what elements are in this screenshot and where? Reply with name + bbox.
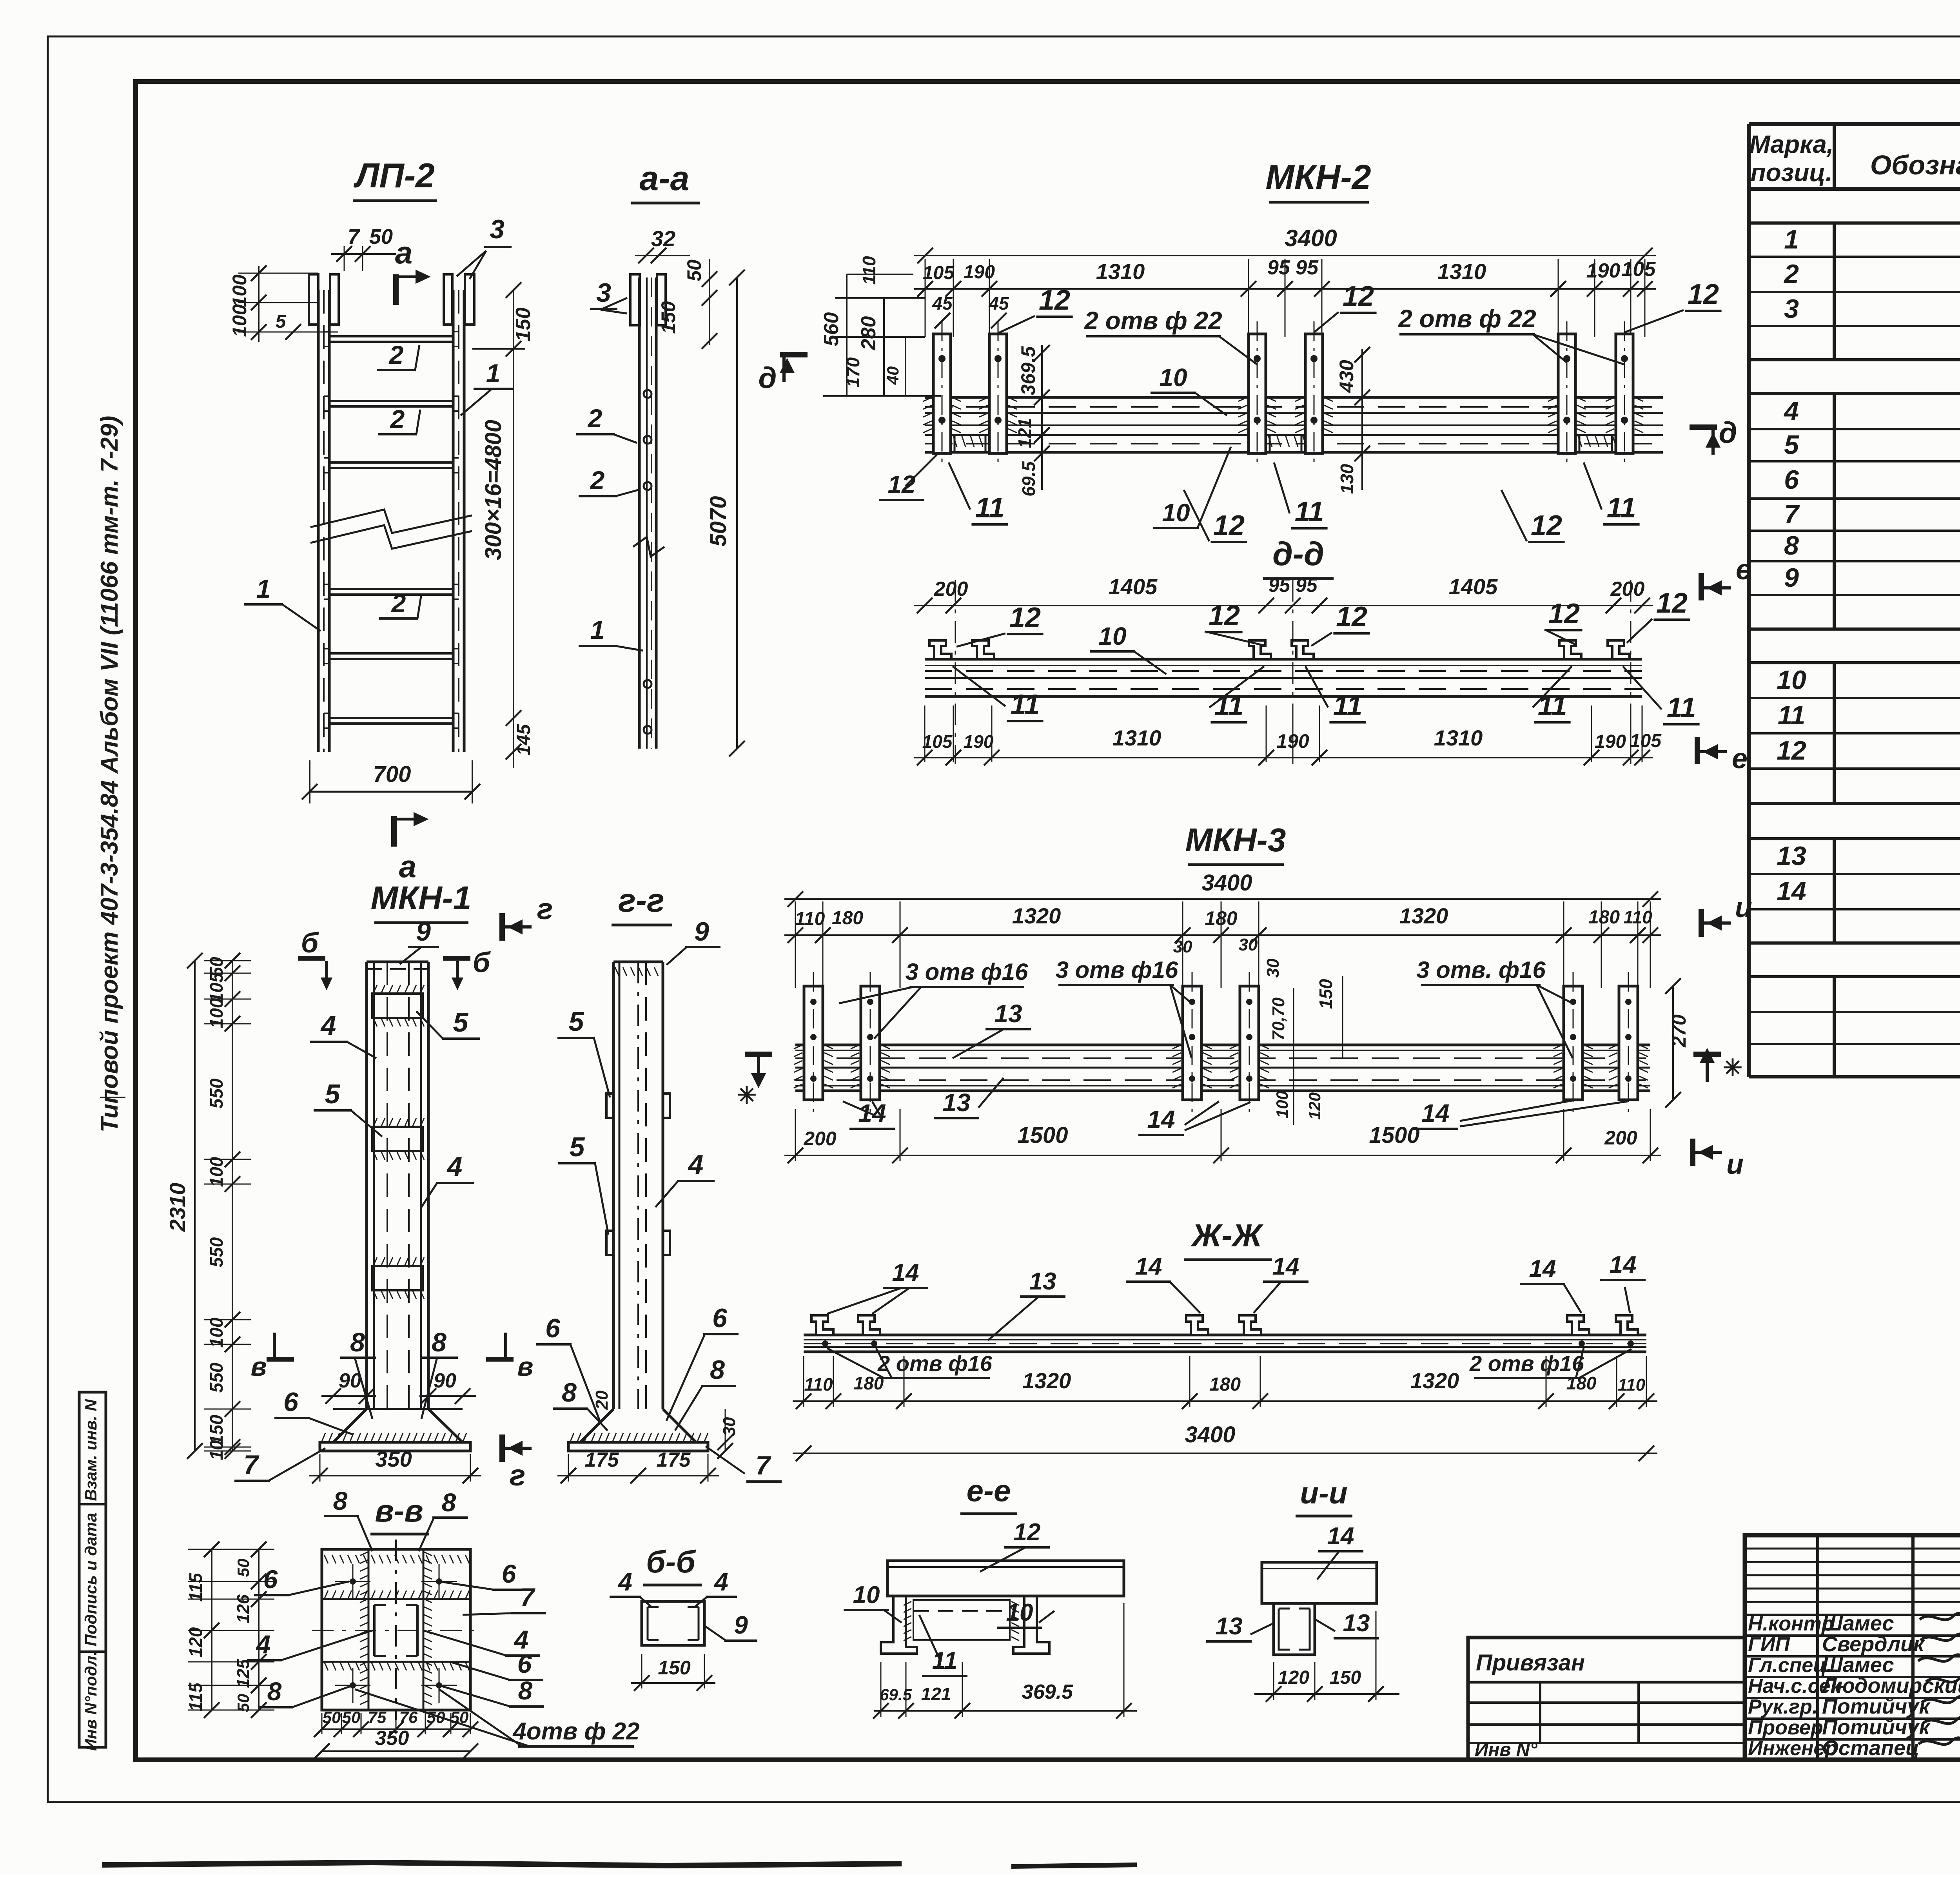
svg-text:75: 75 bbox=[368, 1708, 387, 1726]
svg-text:5: 5 bbox=[569, 1006, 584, 1037]
svg-text:11: 11 bbox=[1538, 690, 1567, 722]
svg-text:в: в bbox=[517, 1352, 533, 1382]
svg-text:13: 13 bbox=[1029, 1268, 1056, 1295]
svg-text:190: 190 bbox=[1586, 259, 1621, 282]
svg-text:1310: 1310 bbox=[1434, 725, 1483, 750]
svg-text:50: 50 bbox=[683, 259, 705, 281]
svg-text:50: 50 bbox=[450, 1708, 469, 1726]
svg-text:10: 10 bbox=[1098, 622, 1126, 650]
svg-text:6: 6 bbox=[545, 1313, 561, 1343]
svg-text:4: 4 bbox=[1783, 396, 1799, 426]
svg-text:5070: 5070 bbox=[706, 496, 731, 546]
svg-text:1500: 1500 bbox=[1017, 1123, 1068, 1148]
svg-text:190: 190 bbox=[1595, 731, 1626, 752]
svg-text:7: 7 bbox=[1784, 499, 1800, 529]
svg-text:Шамес: Шамес bbox=[1822, 1612, 1894, 1635]
svg-text:12: 12 bbox=[1213, 510, 1245, 541]
svg-text:МКН-2: МКН-2 bbox=[1265, 158, 1371, 196]
svg-text:Потийчук: Потийчук bbox=[1822, 1716, 1931, 1739]
svg-text:5: 5 bbox=[1784, 430, 1799, 460]
svg-text:50: 50 bbox=[427, 1708, 445, 1726]
svg-text:90: 90 bbox=[434, 1369, 456, 1392]
svg-text:11: 11 bbox=[1011, 689, 1040, 720]
svg-text:12: 12 bbox=[1688, 279, 1719, 310]
svg-text:20: 20 bbox=[592, 1390, 612, 1410]
svg-text:в-в: в-в bbox=[375, 1493, 423, 1528]
svg-text:115: 115 bbox=[185, 1682, 206, 1712]
svg-text:10: 10 bbox=[1162, 499, 1190, 527]
svg-text:8: 8 bbox=[432, 1328, 446, 1357]
svg-text:2: 2 bbox=[587, 404, 603, 433]
svg-text:е: е bbox=[1736, 554, 1751, 586]
svg-text:105: 105 bbox=[923, 263, 955, 283]
svg-text:8: 8 bbox=[333, 1486, 348, 1515]
svg-text:12: 12 bbox=[1039, 285, 1070, 316]
svg-text:Инв N°: Инв N° bbox=[1475, 1739, 1538, 1760]
svg-text:3 отв ф16: 3 отв ф16 bbox=[1056, 957, 1178, 983]
svg-text:6: 6 bbox=[263, 1565, 278, 1594]
svg-text:и-и: и-и bbox=[1300, 1476, 1347, 1510]
svg-text:1320: 1320 bbox=[1012, 903, 1061, 928]
svg-text:1320: 1320 bbox=[1022, 1368, 1071, 1393]
svg-text:б: б bbox=[473, 947, 491, 978]
svg-text:11: 11 bbox=[1778, 700, 1806, 730]
svg-text:7: 7 bbox=[755, 1451, 771, 1480]
svg-text:2 отв ф 22: 2 отв ф 22 bbox=[1398, 305, 1536, 333]
svg-text:14: 14 bbox=[1777, 876, 1806, 906]
svg-text:200: 200 bbox=[1604, 1127, 1637, 1149]
svg-text:8: 8 bbox=[350, 1328, 365, 1357]
svg-text:2 отв ф16: 2 отв ф16 bbox=[877, 1351, 993, 1376]
svg-text:11: 11 bbox=[1333, 690, 1363, 722]
svg-text:4: 4 bbox=[446, 1151, 463, 1182]
svg-text:12: 12 bbox=[887, 470, 915, 499]
svg-text:190: 190 bbox=[964, 262, 995, 283]
svg-text:180: 180 bbox=[1566, 1373, 1597, 1393]
svg-text:д-д: д-д bbox=[1272, 535, 1324, 572]
svg-text:11: 11 bbox=[1667, 692, 1696, 724]
svg-text:120: 120 bbox=[185, 1627, 206, 1657]
svg-text:Гл.спец.: Гл.спец. bbox=[1748, 1654, 1832, 1677]
svg-text:г-г: г-г bbox=[618, 882, 664, 919]
svg-text:6: 6 bbox=[517, 1649, 532, 1678]
svg-text:3: 3 bbox=[1784, 294, 1799, 324]
svg-text:8: 8 bbox=[710, 1355, 725, 1385]
svg-text:560: 560 bbox=[820, 312, 843, 346]
svg-text:14: 14 bbox=[1610, 1251, 1637, 1279]
svg-text:145: 145 bbox=[514, 724, 534, 756]
svg-text:180: 180 bbox=[832, 908, 863, 929]
svg-text:180: 180 bbox=[1588, 907, 1620, 928]
svg-text:a-a: a-a bbox=[639, 159, 689, 198]
svg-text:1500: 1500 bbox=[1369, 1123, 1419, 1148]
svg-text:б-б: б-б bbox=[646, 1544, 696, 1579]
svg-text:105: 105 bbox=[1630, 731, 1662, 751]
svg-text:1405: 1405 bbox=[1449, 574, 1498, 599]
svg-text:9: 9 bbox=[694, 917, 709, 947]
svg-text:150: 150 bbox=[657, 301, 679, 334]
svg-text:3 отв ф16: 3 отв ф16 bbox=[906, 959, 1028, 985]
svg-text:2 отв ф16: 2 отв ф16 bbox=[1469, 1351, 1584, 1376]
svg-text:130: 130 bbox=[1337, 464, 1357, 494]
svg-text:150: 150 bbox=[512, 308, 535, 342]
svg-text:12: 12 bbox=[1777, 736, 1806, 765]
svg-text:100: 100 bbox=[206, 1317, 227, 1347]
svg-text:30: 30 bbox=[1239, 935, 1258, 954]
svg-text:550: 550 bbox=[206, 1078, 227, 1108]
svg-text:110: 110 bbox=[804, 1374, 833, 1395]
svg-text:3: 3 bbox=[490, 214, 505, 244]
svg-text:Остапец: Остапец bbox=[1822, 1736, 1919, 1760]
svg-text:5: 5 bbox=[325, 1079, 341, 1109]
svg-text:1320: 1320 bbox=[1399, 903, 1448, 928]
svg-text:г: г bbox=[537, 892, 553, 926]
svg-text:190: 190 bbox=[964, 731, 994, 752]
svg-text:1405: 1405 bbox=[1109, 574, 1158, 599]
svg-text:3 отв. ф16: 3 отв. ф16 bbox=[1416, 957, 1546, 983]
svg-text:позиц.: позиц. bbox=[1750, 158, 1832, 187]
svg-text:5: 5 bbox=[570, 1132, 585, 1162]
svg-text:12: 12 bbox=[1009, 602, 1041, 633]
svg-text:30: 30 bbox=[1173, 937, 1192, 956]
svg-text:Свердлик: Свердлик bbox=[1822, 1632, 1925, 1656]
svg-text:2: 2 bbox=[391, 589, 406, 618]
svg-text:12: 12 bbox=[1531, 510, 1562, 541]
svg-text:2: 2 bbox=[590, 466, 605, 495]
svg-text:11: 11 bbox=[975, 492, 1005, 524]
svg-text:13: 13 bbox=[1777, 841, 1806, 871]
svg-text:180: 180 bbox=[854, 1373, 884, 1393]
svg-text:200: 200 bbox=[934, 578, 968, 600]
svg-text:МКН-1: МКН-1 bbox=[371, 880, 472, 916]
svg-text:8: 8 bbox=[1784, 531, 1799, 560]
svg-text:50: 50 bbox=[234, 1559, 252, 1577]
svg-text:12: 12 bbox=[1548, 598, 1580, 629]
svg-text:6: 6 bbox=[1784, 465, 1799, 495]
svg-text:a: a bbox=[395, 235, 413, 270]
svg-text:4: 4 bbox=[320, 1010, 336, 1041]
svg-text:9: 9 bbox=[416, 917, 431, 947]
svg-text:4: 4 bbox=[617, 1568, 632, 1596]
svg-text:3400: 3400 bbox=[1185, 1422, 1235, 1447]
svg-text:14: 14 bbox=[1529, 1255, 1556, 1282]
svg-text:10: 10 bbox=[1159, 363, 1187, 392]
svg-text:50: 50 bbox=[323, 1708, 341, 1726]
svg-text:2: 2 bbox=[390, 404, 405, 433]
svg-text:76: 76 bbox=[399, 1708, 418, 1726]
svg-text:Взам. инв. N: Взам. инв. N bbox=[82, 1399, 100, 1501]
svg-text:9: 9 bbox=[1784, 563, 1799, 593]
svg-text:8: 8 bbox=[518, 1676, 533, 1705]
svg-text:50: 50 bbox=[369, 225, 393, 248]
svg-text:4: 4 bbox=[256, 1630, 271, 1659]
svg-text:✳: ✳ bbox=[1723, 1055, 1742, 1081]
svg-text:200: 200 bbox=[1610, 578, 1645, 600]
svg-text:270: 270 bbox=[1668, 1014, 1690, 1048]
svg-text:14: 14 bbox=[1421, 1099, 1449, 1127]
svg-text:550: 550 bbox=[206, 1362, 227, 1393]
svg-text:1: 1 bbox=[486, 359, 501, 388]
svg-text:30: 30 bbox=[1263, 958, 1283, 977]
svg-text:40: 40 bbox=[884, 366, 902, 385]
svg-text:2: 2 bbox=[388, 340, 404, 369]
svg-text:Потийчук: Потийчук bbox=[1822, 1695, 1931, 1718]
svg-text:ГИП: ГИП bbox=[1748, 1633, 1790, 1656]
svg-text:Провер: Провер bbox=[1748, 1716, 1823, 1739]
svg-text:ЛП-2: ЛП-2 bbox=[353, 156, 435, 195]
svg-text:110: 110 bbox=[795, 909, 825, 929]
svg-text:и: и bbox=[1726, 1149, 1744, 1180]
svg-text:Ж-Ж: Ж-Ж bbox=[1190, 1218, 1263, 1253]
svg-text:175: 175 bbox=[585, 1449, 619, 1471]
svg-text:110: 110 bbox=[859, 256, 879, 285]
svg-text:120: 120 bbox=[1305, 1092, 1324, 1120]
svg-text:д: д bbox=[1719, 416, 1737, 450]
svg-text:1: 1 bbox=[590, 615, 605, 644]
svg-text:8: 8 bbox=[267, 1677, 282, 1706]
svg-text:350: 350 bbox=[375, 1447, 412, 1471]
svg-text:е-е: е-е bbox=[967, 1473, 1011, 1508]
svg-text:550: 550 bbox=[206, 1237, 227, 1267]
svg-text:105: 105 bbox=[922, 731, 953, 752]
svg-text:г: г bbox=[510, 1459, 526, 1492]
svg-text:95 95: 95 95 bbox=[1267, 256, 1319, 279]
svg-text:8: 8 bbox=[442, 1488, 456, 1517]
svg-text:430: 430 bbox=[1336, 360, 1357, 393]
svg-text:12: 12 bbox=[1656, 588, 1688, 619]
svg-text:13: 13 bbox=[994, 999, 1022, 1028]
svg-text:300×16=4800: 300×16=4800 bbox=[481, 420, 506, 560]
svg-text:14: 14 bbox=[1272, 1253, 1299, 1280]
svg-text:170: 170 bbox=[843, 357, 863, 387]
svg-text:3400: 3400 bbox=[1201, 870, 1252, 896]
svg-text:30: 30 bbox=[720, 1417, 739, 1436]
svg-text:100: 100 bbox=[1273, 1091, 1291, 1118]
svg-text:Рук.гр.: Рук.гр. bbox=[1748, 1696, 1818, 1718]
svg-text:4отв ф 22: 4отв ф 22 bbox=[512, 1718, 639, 1745]
svg-text:a: a bbox=[399, 849, 417, 884]
svg-text:69.5: 69.5 bbox=[880, 1685, 912, 1704]
svg-text:1: 1 bbox=[1784, 225, 1799, 254]
svg-text:700: 700 bbox=[373, 762, 411, 787]
svg-text:в: в bbox=[250, 1352, 267, 1382]
svg-text:11: 11 bbox=[1607, 492, 1636, 524]
svg-text:6: 6 bbox=[712, 1303, 728, 1333]
svg-text:3400: 3400 bbox=[1285, 225, 1337, 251]
svg-text:и: и bbox=[1735, 892, 1752, 923]
svg-text:280: 280 bbox=[857, 316, 880, 351]
svg-text:13: 13 bbox=[1216, 1613, 1243, 1640]
svg-text:150: 150 bbox=[1316, 979, 1336, 1009]
svg-text:13: 13 bbox=[942, 1088, 970, 1117]
svg-text:Н.контр: Н.контр bbox=[1748, 1612, 1834, 1635]
svg-text:Подпись и дата: Подпись и дата bbox=[82, 1513, 100, 1646]
svg-text:2: 2 bbox=[1783, 259, 1799, 289]
svg-text:5: 5 bbox=[453, 1007, 469, 1037]
svg-text:12: 12 bbox=[1336, 601, 1367, 633]
svg-text:Марка,: Марка, bbox=[1749, 130, 1833, 158]
svg-text:150: 150 bbox=[658, 1657, 691, 1679]
svg-text:180: 180 bbox=[1209, 1374, 1241, 1395]
svg-text:12: 12 bbox=[1209, 600, 1240, 631]
svg-text:е: е bbox=[1732, 743, 1748, 774]
svg-text:3: 3 bbox=[596, 278, 611, 308]
svg-text:11: 11 bbox=[1214, 690, 1244, 722]
svg-text:10: 10 bbox=[853, 1581, 880, 1609]
svg-text:4: 4 bbox=[713, 1568, 728, 1596]
svg-text:2 отв ф 22: 2 отв ф 22 bbox=[1084, 306, 1222, 335]
svg-text:121: 121 bbox=[921, 1684, 951, 1704]
svg-text:1310: 1310 bbox=[1112, 725, 1161, 750]
svg-text:Типовой проект 407-3-354.84: Типовой проект 407-3-354.84 Альбом VII (… bbox=[96, 416, 123, 1133]
svg-text:10: 10 bbox=[1777, 665, 1806, 695]
svg-text:369.5: 369.5 bbox=[1017, 346, 1039, 395]
svg-text:12: 12 bbox=[1014, 1519, 1041, 1546]
svg-text:1310: 1310 bbox=[1096, 259, 1145, 284]
svg-text:12: 12 bbox=[1343, 281, 1374, 312]
svg-text:7: 7 bbox=[348, 225, 361, 248]
svg-text:8: 8 bbox=[562, 1378, 577, 1407]
svg-text:90: 90 bbox=[339, 1369, 361, 1392]
svg-text:110: 110 bbox=[1618, 1375, 1646, 1395]
svg-text:69.5: 69.5 bbox=[1018, 461, 1039, 497]
svg-text:Шамес: Шамес bbox=[1822, 1653, 1894, 1677]
svg-text:14: 14 bbox=[892, 1259, 919, 1286]
svg-text:105: 105 bbox=[1622, 258, 1656, 281]
svg-text:350: 350 bbox=[375, 1727, 409, 1750]
svg-text:175: 175 bbox=[657, 1449, 691, 1471]
svg-text:✳: ✳ bbox=[737, 1082, 757, 1108]
svg-text:150: 150 bbox=[1330, 1667, 1361, 1688]
svg-text:120: 120 bbox=[1278, 1667, 1309, 1688]
svg-text:14: 14 bbox=[1327, 1523, 1354, 1550]
svg-text:4: 4 bbox=[688, 1149, 704, 1180]
svg-text:б: б bbox=[301, 927, 319, 959]
svg-text:32: 32 bbox=[651, 226, 675, 251]
svg-text:369.5: 369.5 bbox=[1022, 1681, 1073, 1703]
svg-text:9: 9 bbox=[734, 1611, 748, 1639]
svg-text:45: 45 bbox=[988, 293, 1009, 314]
svg-text:д: д bbox=[759, 361, 777, 395]
svg-text:13: 13 bbox=[1343, 1610, 1370, 1637]
svg-text:115: 115 bbox=[185, 1572, 206, 1602]
svg-text:10: 10 bbox=[1006, 1599, 1033, 1626]
svg-text:7: 7 bbox=[520, 1583, 536, 1612]
svg-text:14: 14 bbox=[1147, 1105, 1175, 1133]
svg-text:10: 10 bbox=[206, 1440, 227, 1460]
svg-text:Обозначение: Обозначение bbox=[1870, 150, 1960, 180]
svg-text:5: 5 bbox=[276, 311, 287, 332]
svg-text:Людомирский: Людомирский bbox=[1820, 1674, 1960, 1697]
svg-text:7: 7 bbox=[243, 1450, 260, 1480]
svg-text:121: 121 bbox=[1014, 418, 1035, 448]
svg-text:Привязан: Привязан bbox=[1476, 1650, 1585, 1676]
svg-text:14: 14 bbox=[1135, 1253, 1162, 1280]
svg-text:45: 45 bbox=[932, 293, 953, 314]
svg-text:11: 11 bbox=[1295, 496, 1324, 528]
svg-text:70,70: 70,70 bbox=[1269, 997, 1288, 1041]
svg-text:6: 6 bbox=[502, 1559, 517, 1588]
svg-text:200: 200 bbox=[803, 1128, 837, 1150]
svg-text:50: 50 bbox=[234, 1694, 252, 1712]
svg-text:6: 6 bbox=[283, 1387, 299, 1417]
svg-text:МКН-3: МКН-3 bbox=[1185, 822, 1286, 858]
svg-text:Инв N°подл.: Инв N°подл. bbox=[82, 1651, 100, 1751]
svg-text:125: 125 bbox=[234, 1659, 253, 1688]
svg-text:100: 100 bbox=[206, 1157, 227, 1187]
svg-text:50: 50 bbox=[342, 1708, 361, 1726]
svg-text:2310: 2310 bbox=[165, 1183, 190, 1232]
svg-text:1: 1 bbox=[256, 574, 271, 603]
svg-text:1310: 1310 bbox=[1437, 259, 1486, 284]
svg-text:1320: 1320 bbox=[1410, 1368, 1459, 1393]
